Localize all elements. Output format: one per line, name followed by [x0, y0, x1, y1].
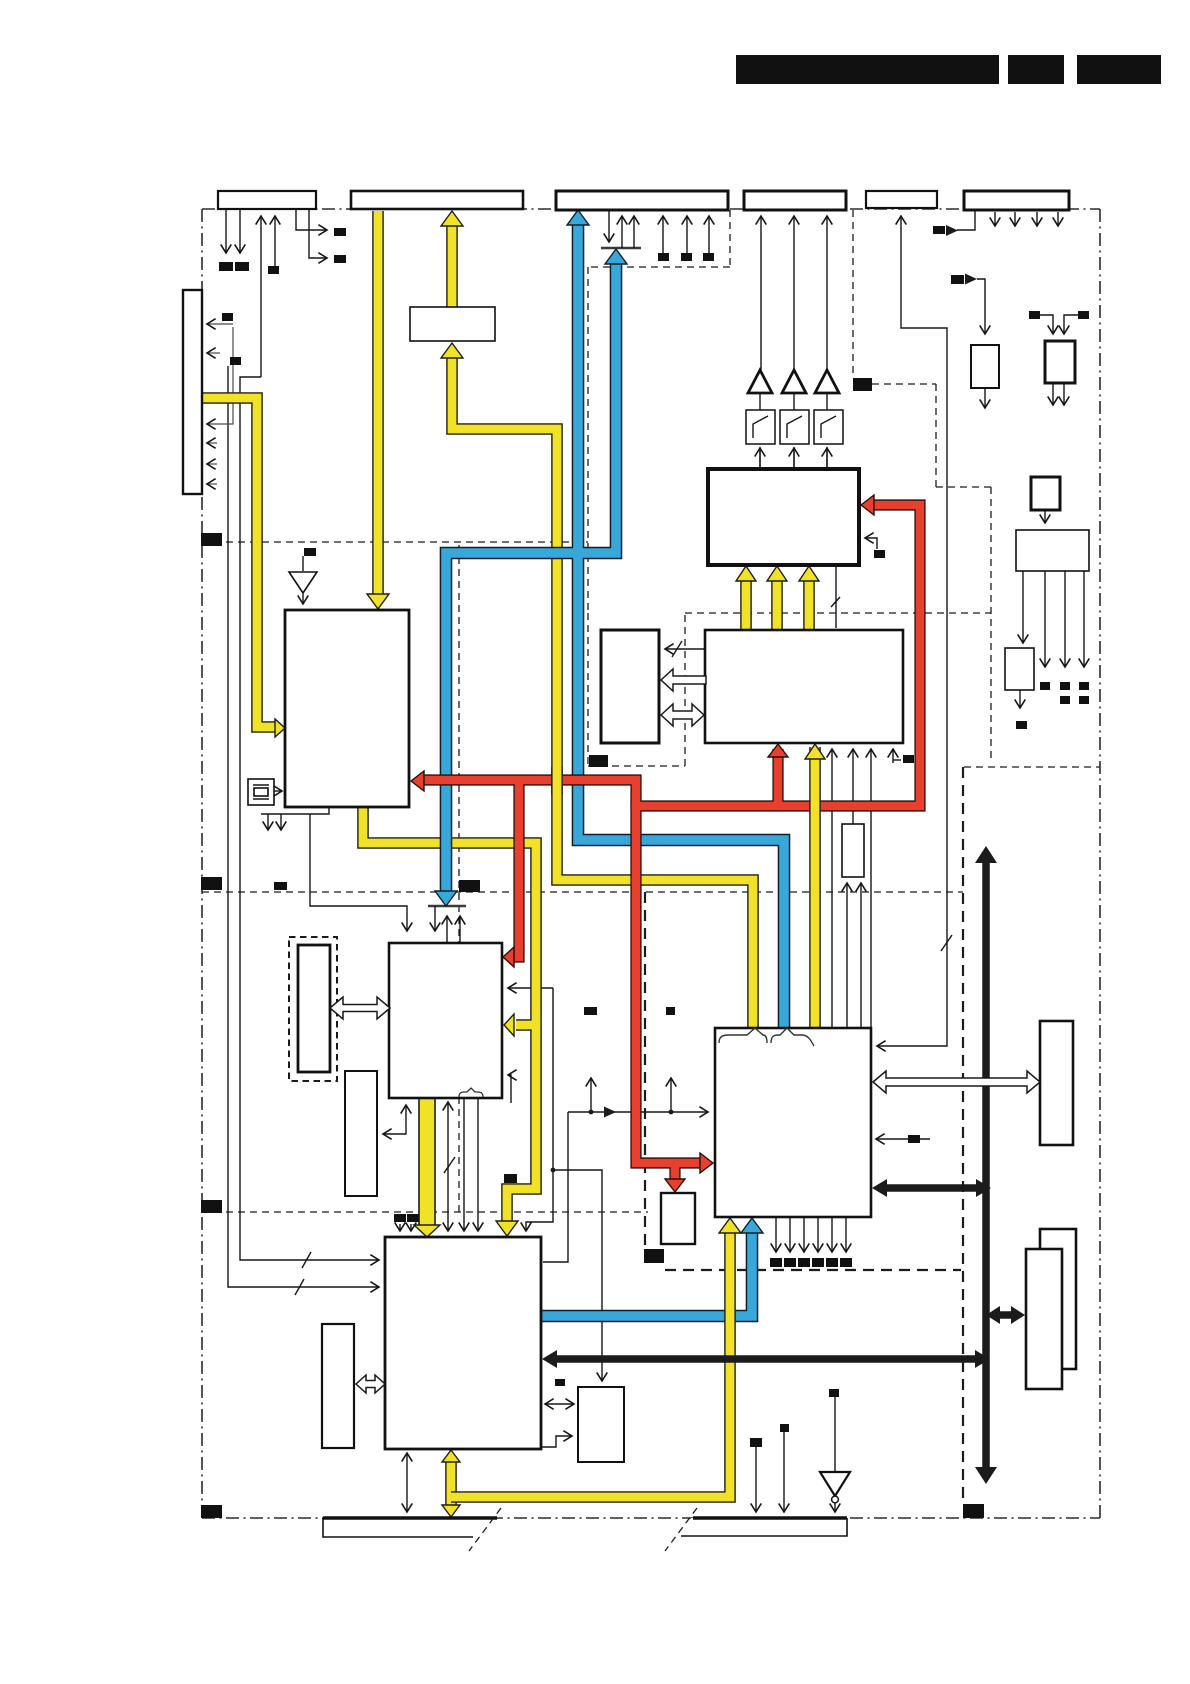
blue arrowheads — [567, 210, 589, 225]
connector 2 top — [351, 191, 523, 209]
block CRT drive — [708, 469, 859, 565]
box gamma 2 — [780, 410, 809, 444]
wire red to micro — [513, 776, 519, 957]
wire yellow small box up to conn2 — [446, 224, 458, 307]
box standby reg — [1005, 648, 1034, 690]
bus I2C vertical — [982, 860, 990, 1470]
node triangle marker — [604, 1107, 616, 1118]
wire video bottom pin 4 — [870, 749, 872, 1028]
box OSD — [661, 1193, 695, 1244]
yellow arrowheads — [367, 594, 389, 609]
box keyboard — [322, 1324, 354, 1448]
block feature box — [715, 1028, 871, 1217]
wire video bottom pin 1 — [831, 749, 833, 1028]
dashed boundary y=1212 lower-left module — [202, 1211, 648, 1213]
wire video to small box — [852, 749, 854, 824]
wire blue feature to main — [541, 1231, 752, 1316]
bottom connector right — [665, 1508, 847, 1551]
wire conn6 pins down — [994, 212, 996, 226]
bold dashed x=963 right module — [962, 767, 964, 1502]
wire conn1 pin up 1 — [260, 216, 262, 377]
bus slash — [831, 597, 840, 607]
wire conn1 pin down 1 — [225, 210, 227, 253]
wire conn3 pin down — [608, 210, 610, 242]
wire micro right stub — [508, 1075, 511, 1103]
wire square to wide box — [1044, 510, 1046, 523]
wire blue Y/C up to conn3 — [446, 261, 616, 893]
wire yellow CVBS conn2 down to tuner — [372, 211, 384, 598]
box IF filter — [410, 307, 495, 341]
redaction labels — [219, 262, 233, 271]
wire yellow feature to main link (over blue) — [451, 1231, 730, 1497]
box gamma 3 — [814, 410, 843, 444]
dashed boundary x=459 tuner module — [458, 545, 460, 1212]
bus slash — [941, 935, 952, 951]
wire micro-main lines — [463, 1098, 465, 1231]
wire conn1 to label right 1 — [296, 210, 327, 230]
open arrow RAM-video 1 — [661, 669, 706, 691]
connector 1 top — [218, 191, 316, 209]
wire tuner bottom line to micro — [310, 814, 407, 931]
wire small box to feature 2 — [860, 883, 862, 1028]
wire small box to feature 1 — [846, 883, 848, 1028]
bottom connector left — [323, 1508, 501, 1551]
wire label feed into conn6 — [957, 211, 975, 230]
wire RAM read line — [665, 648, 706, 650]
dashed boundary y=892 mid module — [202, 891, 963, 893]
main board dash-dot frame — [202, 209, 1100, 1518]
amp triangle R — [748, 370, 772, 393]
wire outs of small box R — [1052, 383, 1054, 405]
bus slash — [444, 1157, 455, 1173]
dashed box top-middle under connector 3 — [588, 210, 730, 613]
wire out of box to label — [1019, 690, 1021, 708]
bus slash — [672, 641, 682, 657]
wire outs of wide box — [1022, 571, 1024, 643]
wire conn5 line to feature box — [877, 216, 947, 1046]
open arrow RAM-video 2 — [661, 704, 704, 726]
wire feature right arrow from label — [876, 1138, 930, 1140]
box EEPROM dotted — [289, 937, 337, 1081]
wire video bottom hook label — [892, 749, 894, 763]
wire red vertical branch — [423, 780, 636, 810]
wire micro top pins — [434, 906, 436, 931]
wire yellow triple to CRT drive — [740, 578, 752, 630]
open arrow EEPROM-micro — [330, 997, 390, 1019]
open arrow feature to tea right — [873, 1071, 1040, 1093]
box supply wide — [1016, 530, 1089, 571]
wire label arrows into main top — [399, 1224, 401, 1231]
wire branch to sync box — [553, 1170, 602, 1381]
bus link to memory boxes — [994, 1311, 1016, 1319]
bold dashed x=645 and y=1263 — [644, 892, 646, 1248]
bus main-I2C horizontal — [553, 1355, 978, 1363]
box degauss — [971, 345, 999, 388]
brace feature top 1 — [719, 1028, 767, 1043]
amp triangle G — [782, 370, 806, 393]
wire arrows into left connector — [207, 323, 233, 325]
inverter bottom — [820, 1472, 850, 1496]
block video processor — [705, 630, 903, 743]
dashed y=767 right — [964, 766, 1100, 768]
wire CRT hook label — [865, 538, 877, 549]
wire long line x=240 to main block — [240, 377, 379, 1260]
red arrowheads — [861, 495, 874, 515]
dashed box around RAM — [588, 613, 991, 766]
wire yellow patch over red crossing — [551, 767, 563, 795]
wire micro to aux box — [383, 1105, 406, 1134]
wire feeds into small box R — [1039, 315, 1053, 334]
connector 4 top — [744, 191, 846, 210]
wire micro-main bus line — [447, 1102, 449, 1231]
wire h-sync line into feature box — [568, 1111, 708, 1113]
wire RGB lines to connector 4 — [760, 216, 762, 371]
mute triangle above tuner — [302, 556, 304, 571]
block main control — [385, 1237, 541, 1449]
node triangle marker — [965, 274, 977, 285]
connector 5 top — [866, 191, 937, 208]
box gamma 1 — [746, 410, 775, 444]
wire tuner bottom stub — [261, 807, 329, 814]
node bar micro top — [428, 905, 466, 907]
connector 6 top — [964, 191, 1069, 210]
box supply square — [1031, 477, 1060, 510]
box ident — [578, 1387, 624, 1462]
wire conn pins bottom right — [755, 1447, 757, 1512]
wire main to ident box links — [545, 1403, 574, 1405]
open arrow main-keyboard — [356, 1375, 385, 1393]
wire micro right ident line — [508, 987, 553, 989]
wire main block bottom pins — [406, 1453, 408, 1512]
node bar under conn3 — [601, 247, 641, 249]
wire yellow video-feature (over red) — [809, 747, 821, 1028]
amp triangle B — [815, 370, 839, 393]
box posistor — [1045, 341, 1075, 383]
node triangle marker — [946, 225, 958, 236]
wire yellow micro to main fat — [418, 1098, 436, 1226]
box tea6415 right — [1040, 1021, 1073, 1145]
box memory back — [1040, 1229, 1076, 1369]
connector side left — [183, 290, 202, 494]
block micro — [389, 943, 502, 1098]
block tuner — [285, 610, 409, 807]
wire conn3 pins up — [621, 216, 623, 248]
wire blue CVBS out conn3 down to feature — [578, 223, 784, 1028]
block RAM — [601, 630, 659, 743]
wire yellow branch into micro — [516, 1019, 536, 1031]
wire red up into video — [772, 749, 783, 810]
wire conn1 to label right 2 — [309, 210, 327, 258]
wire inverter out — [834, 1503, 836, 1512]
wire conn1 pin up 2 — [274, 216, 276, 266]
box memory front — [1026, 1249, 1062, 1389]
wire gamma links — [760, 392, 827, 410]
gamma curves — [753, 416, 768, 438]
wire out of box x985 — [984, 388, 986, 408]
wire label feed down to box — [977, 279, 985, 334]
wire red down to OSD box — [669, 1159, 680, 1182]
dashed staircase right of CRT — [853, 210, 991, 762]
wire feature bottom pins to labels — [775, 1217, 777, 1252]
wire conn1 pin down 2 — [239, 210, 241, 253]
connector 3 top — [556, 191, 728, 210]
node junction — [551, 1168, 556, 1173]
box reset — [345, 1071, 377, 1196]
wire inverter feed — [834, 1397, 836, 1471]
bus slash — [295, 1279, 304, 1295]
dashed boundary y=542 left module — [202, 541, 588, 543]
node junctions — [589, 1110, 594, 1115]
wire yellow from side connector to tuner — [201, 398, 277, 727]
crystal symbol — [248, 779, 274, 805]
wire long line x=228 to main block — [228, 366, 379, 1287]
bus slash — [302, 1252, 311, 1268]
brace micro bottom — [459, 1088, 483, 1097]
redaction title bars — [736, 55, 999, 84]
box delay line — [842, 824, 864, 877]
wire yellow tuner out to main block — [363, 807, 536, 1224]
wire yellow main-connector link — [445, 1460, 457, 1507]
brace feature top 2 — [771, 1028, 814, 1046]
wire red RGB CRT feed — [632, 505, 920, 806]
wire CRT to video line — [835, 565, 837, 628]
wire yellow small box down branch — [452, 356, 753, 1028]
bus feature-I2C horizontal — [884, 1184, 979, 1192]
